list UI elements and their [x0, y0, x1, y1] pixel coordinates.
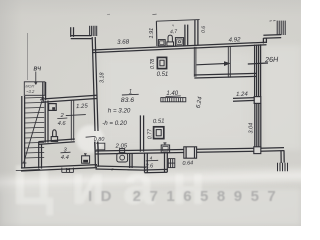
svg-text:~3.2: ~3.2: [26, 89, 35, 94]
top-right jog walls: [263, 35, 281, 44]
stair landing label box: [24, 82, 45, 96]
svg-text:1.25: 1.25: [76, 103, 89, 110]
wall: room3 right wall / band left wall: [95, 142, 99, 167]
bathroom left jamb: [155, 21, 158, 46]
fraction bar room4 label: [146, 159, 158, 162]
svg-text:4,7: 4,7: [170, 29, 177, 35]
duct box 0.64: [184, 147, 197, 158]
svg-text:2.6: 2.6: [144, 164, 154, 170]
faint extension line left: [27, 33, 29, 80]
stair steps: [25, 97, 44, 158]
wall: room2 top wall: [42, 95, 97, 102]
bath bathroom: [175, 38, 183, 46]
wall: stair hall left wall above room2: [43, 82, 46, 100]
svg-text:0.64: 0.64: [182, 160, 193, 166]
svg-text:3.04: 3.04: [248, 123, 254, 134]
svg-text:-h = 0.20: -h = 0.20: [102, 120, 127, 127]
partition between room2 and lobby: [71, 101, 73, 141]
wall: band room A right wall: [130, 153, 132, 168]
wall: top wall of room 1: [92, 42, 267, 52]
partition below C2: [140, 115, 143, 151]
bottom-right corner walls: [255, 148, 285, 163]
vestibule bottom wall: [194, 73, 257, 78]
pier node at bottom-right wall junction: [254, 147, 261, 154]
wall: room4 right wall: [165, 152, 168, 172]
hatched strip 1.40: [161, 98, 186, 102]
door tick through right wall (entrance): [248, 63, 268, 64]
wall: room2 left wall: [45, 101, 48, 143]
watermark listing id: [88, 188, 308, 205]
toilet room2: [51, 130, 57, 142]
fraction bar room1 label: [122, 93, 139, 96]
wall stub 1.24: [233, 98, 255, 102]
svg-text:4.92: 4.92: [228, 36, 241, 43]
svg-text:3.18: 3.18: [99, 73, 105, 84]
wall: room3 top wall: [39, 139, 75, 144]
svg-text:0.6: 0.6: [201, 26, 207, 33]
wall: room4 left wall: [145, 153, 148, 173]
wall: right wall band upper (y 45-96): [255, 44, 261, 96]
svg-text:2.05: 2.05: [114, 143, 128, 149]
striped door symbol right of room4: [168, 159, 175, 168]
washbasin room3: [82, 154, 90, 163]
svg-text:ч: ч: [172, 24, 174, 28]
door leaf tick room2: [66, 115, 86, 116]
washbasin bathroom: [158, 40, 165, 46]
svg-text:1: 1: [129, 89, 132, 95]
door hinge square room2: [49, 104, 57, 111]
bathroom mid wall: [185, 25, 188, 46]
vestibule right partition: [228, 46, 230, 77]
fraction bar room2 label: [57, 117, 67, 120]
hatch wall section top-right: [277, 21, 285, 35]
wall: bottom wall of stair block / rooms 2-3: [21, 165, 97, 171]
watermark Cian circle: [76, 125, 104, 153]
fraction bar room3 label: [61, 151, 71, 154]
svg-text:1.91: 1.91: [149, 28, 155, 39]
entrance arrow: [197, 61, 231, 66]
tiny marks above top-right: [270, 20, 276, 23]
svg-text:1.40: 1.40: [166, 91, 178, 97]
square node in right wall: [254, 97, 261, 104]
svg-text:1.24: 1.24: [236, 92, 249, 98]
porch notch below bottom wall: [62, 168, 74, 173]
svg-text:83.6: 83.6: [121, 97, 134, 104]
wall: left wall upper (hall/room1): [92, 37, 98, 131]
paper crease highlight: [0, 164, 315, 194]
svg-text:26Н: 26Н: [264, 55, 279, 65]
svg-text:0.77: 0.77: [147, 128, 153, 139]
column C2: [154, 127, 164, 139]
svg-text:2: 2: [60, 113, 64, 119]
wall: right wall band lower (y 103-149): [255, 104, 261, 149]
hatch lines top-left wall section: [90, 26, 97, 36]
tiny marks top-center: [152, 13, 156, 16]
wall: bottom wall of room1 (south): [95, 148, 256, 154]
hatch wall section bottom-right: [278, 163, 288, 171]
wall: room3 left wall: [39, 142, 42, 169]
WC fixture in band room: [117, 149, 128, 162]
svg-text:h = 3.20: h = 3.20: [108, 108, 131, 115]
arrow line from hand note to box: [35, 72, 37, 85]
sink room4: [161, 143, 169, 153]
door leaf tick at 0.80 door: [86, 135, 96, 138]
svg-text:3.68: 3.68: [117, 38, 130, 45]
svg-text:ВЧ: ВЧ: [34, 67, 42, 73]
wall: left wall lower stub below door: [95, 142, 99, 153]
stairs left wall: [22, 96, 25, 168]
svg-text:0.78: 0.78: [150, 59, 156, 69]
svg-text:4.6: 4.6: [58, 121, 67, 127]
svg-text:0.51: 0.51: [153, 119, 165, 126]
column C1: [157, 57, 166, 68]
svg-text:0.80: 0.80: [94, 137, 106, 143]
wall: room4 bottom wall: [145, 169, 168, 172]
door pier rect at 0.80 door: [96, 143, 105, 150]
thin tick extending bottom-left: [16, 169, 40, 170]
wall stub with hatch top-left: [71, 27, 92, 38]
svg-text:4.4: 4.4: [61, 155, 69, 161]
vestibule left partition: [194, 47, 196, 77]
toilet bathroom: [167, 35, 174, 46]
stair direction diagonal with arrow: [22, 98, 44, 163]
svg-text:0.51: 0.51: [157, 72, 169, 78]
wall: band bottom (segment under rooms A): [96, 166, 147, 170]
bathroom right wall: [195, 20, 198, 45]
underline of 1.40: [166, 95, 181, 98]
svg-text:МОП: МОП: [25, 84, 34, 88]
svg-text:6.24: 6.24: [196, 96, 204, 109]
svg-text:4: 4: [150, 156, 153, 161]
bathroom top line: [156, 20, 199, 22]
